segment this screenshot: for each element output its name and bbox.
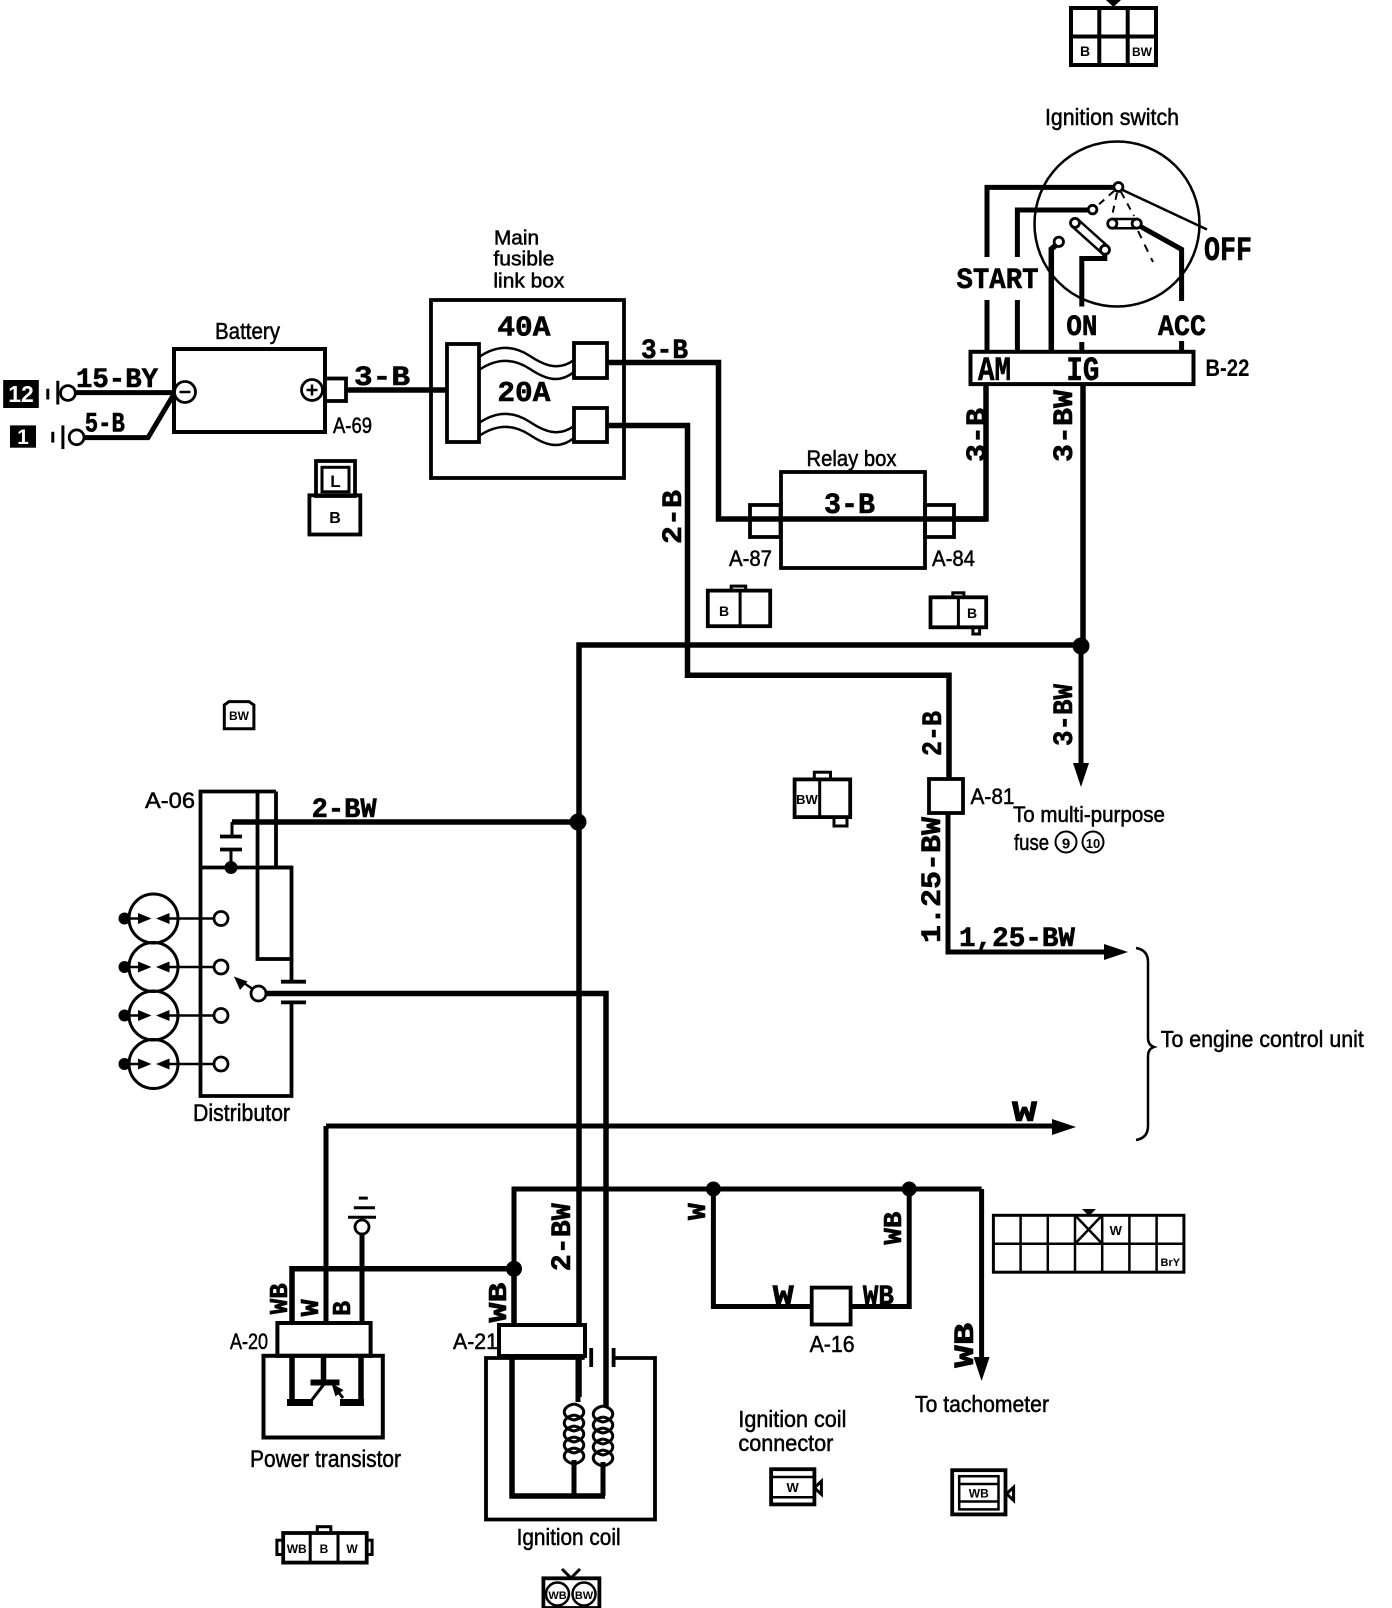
wire contact feed (thick) (1051, 246, 1055, 352)
svg-text:A-20: A-20 (230, 1329, 268, 1354)
svg-text:3-B: 3-B (641, 336, 688, 367)
svg-text:B: B (1080, 43, 1090, 59)
connector A-21 (499, 1325, 585, 1356)
fuse bus bar (447, 344, 479, 442)
wire WB horizontal (A-20 area) (292, 1269, 514, 1323)
svg-text:W: W (1110, 1223, 1123, 1238)
svg-text:START: START (957, 264, 1039, 298)
svg-text:9: 9 (1062, 836, 1070, 853)
terminal symbol 12 (46, 389, 49, 400)
svg-text:ACC: ACC (1158, 311, 1206, 345)
battery minus terminal (175, 382, 196, 403)
distributor box (201, 792, 292, 1097)
wire 5-B (84, 394, 174, 438)
wire WB riser to bus (514, 1189, 982, 1269)
switch contact circles (1088, 205, 1097, 214)
svg-text:To tachometer: To tachometer (915, 1391, 1049, 1417)
junction (condenser to case) (225, 861, 238, 874)
svg-text:3-B: 3-B (824, 489, 875, 523)
svg-text:A-87: A-87 (729, 546, 772, 571)
svg-text:WB: WB (879, 1211, 909, 1244)
connector grid (top, 2x3 cells B/BW) (1071, 0, 1156, 65)
fusible link 20A wavy (479, 414, 574, 432)
brace to engine control unit (1136, 948, 1154, 1140)
wire: long horizontal bus y=645 (579, 645, 1081, 1397)
svg-text:3-B: 3-B (963, 408, 994, 462)
svg-text:10: 10 (1086, 836, 1100, 851)
svg-text:B: B (719, 603, 729, 619)
junction W branch (706, 1182, 721, 1197)
coil return wire (512, 1356, 605, 1496)
svg-text:WB: WB (863, 1282, 894, 1313)
breaker condenser bars (281, 980, 306, 984)
switch line to OFF (1118, 188, 1207, 230)
svg-text:A-06: A-06 (145, 788, 195, 813)
svg-text:A-81: A-81 (971, 784, 1015, 809)
terminal 12 (black tag) (3, 380, 39, 408)
svg-text:BW: BW (575, 1590, 594, 1602)
svg-text:B: B (320, 1542, 329, 1556)
junction 2-BW (570, 814, 587, 831)
svg-text:Distributor: Distributor (193, 1100, 290, 1127)
main fusible link box (431, 300, 624, 478)
connector WB/BW (bottom center) (543, 1569, 599, 1608)
junction 3-BW (1073, 638, 1090, 655)
connector W (ignition coil connector) (771, 1469, 821, 1504)
svg-text:Power transistor: Power transistor (250, 1446, 401, 1473)
svg-text:15-BY: 15-BY (76, 365, 158, 396)
svg-text:L: L (330, 472, 340, 491)
svg-text:WB: WB (287, 1542, 307, 1556)
svg-text:B: B (329, 510, 341, 527)
svg-text:W: W (296, 1299, 326, 1316)
fusible link 40A wavy (479, 348, 574, 366)
svg-text:OFF: OFF (1204, 233, 1252, 271)
svg-text:B-22: B-22 (1205, 355, 1249, 382)
wire 3-B battery to fuse box (346, 387, 447, 393)
connector A-81 (929, 779, 963, 813)
svg-text:3-B: 3-B (354, 363, 410, 394)
svg-text:3-BW: 3-BW (1050, 390, 1081, 462)
distributor inner pickup rect (256, 792, 260, 868)
svg-text:A-16: A-16 (810, 1331, 855, 1357)
ground terminal (B pin) (360, 1234, 365, 1322)
svg-text:1: 1 (17, 426, 29, 449)
svg-text:Ignition coil: Ignition coil (738, 1406, 846, 1432)
connector A-20 (277, 1323, 370, 1356)
svg-text:W: W (346, 1542, 358, 1556)
connector grid (engine control, 2x7) (993, 1209, 1184, 1272)
wire 3-B fuse output to relay (607, 363, 750, 520)
connector A-16 (812, 1288, 851, 1325)
connector L/B (below battery) (309, 461, 360, 535)
svg-text:Relay box: Relay box (807, 446, 897, 471)
wire ON feed (1082, 252, 1105, 307)
svg-text:W: W (787, 1480, 800, 1495)
svg-text:BrY: BrY (1161, 1257, 1181, 1269)
wire W pin (distributor to A-20) (324, 1126, 329, 1322)
condenser plates (220, 835, 242, 839)
svg-text:W: W (1012, 1097, 1037, 1131)
wire W to engine control unit (326, 1124, 1054, 1129)
connector A-84 (925, 505, 954, 537)
circled 9 (1056, 832, 1077, 853)
svg-text:ON: ON (1066, 311, 1097, 345)
transistor Q1 (287, 1356, 364, 1406)
svg-text:WB: WB (484, 1282, 514, 1322)
svg-text:5-B: 5-B (85, 410, 125, 441)
svg-text:To engine control unit: To engine control unit (1161, 1026, 1365, 1052)
wire 2-B fuse output (607, 426, 949, 780)
wire ACC feed (1141, 227, 1182, 302)
wire W branch to A-16 (713, 1189, 811, 1307)
svg-text:BW: BW (229, 709, 250, 723)
svg-text:2-B: 2-B (659, 490, 690, 544)
spark plug 2 (119, 943, 229, 992)
wire WB to tachometer (979, 1189, 984, 1359)
wire WB branch to A-16 (851, 1189, 910, 1307)
svg-text:Ignition coil: Ignition coil (517, 1524, 621, 1550)
svg-text:A-21: A-21 (453, 1329, 498, 1354)
svg-text:Battery: Battery (215, 318, 280, 344)
svg-text:BW: BW (796, 792, 818, 807)
svg-text:1,25-BW: 1,25-BW (959, 924, 1075, 955)
svg-text:B: B (967, 605, 977, 621)
svg-text:connector: connector (738, 1430, 833, 1456)
ignition switch circle (1035, 142, 1200, 307)
wire 3-B through relay (750, 516, 986, 522)
svg-text:WB: WB (951, 1322, 982, 1367)
svg-text:BW: BW (1132, 45, 1153, 59)
connector A-69 (325, 379, 346, 402)
connector B-22 (ignition switch) (971, 352, 1194, 384)
terminal 1 (black tag) (10, 425, 36, 447)
switch dashed rays (1096, 191, 1114, 207)
svg-text:A-84: A-84 (932, 546, 975, 571)
svg-text:WB: WB (265, 1283, 295, 1314)
wire 2-BW distributor to bus (232, 819, 578, 825)
breaker moving contact (251, 986, 266, 1001)
svg-text:W: W (683, 1203, 713, 1220)
svg-text:A-69: A-69 (333, 413, 372, 438)
wire 3-BW (IG down to junction) (1080, 384, 1086, 646)
svg-text:link box: link box (493, 271, 564, 293)
svg-text:AM: AM (978, 353, 1011, 391)
connector B (left of relay, 2-cell) (708, 586, 770, 626)
connector WB/B/W (bottom left, 3-cell) (277, 1527, 372, 1563)
terminal symbol 1 (51, 432, 54, 443)
svg-text:fuse: fuse (1014, 830, 1049, 855)
power transistor box (264, 1356, 383, 1438)
wire 3-BW arrow to multi-purpose fuse (1079, 646, 1084, 765)
svg-text:WB: WB (969, 1487, 989, 1501)
connector A-87 (750, 505, 781, 537)
switch capsule (horizontal) (1112, 218, 1136, 221)
connector BW (middle, 2-cell) (795, 772, 851, 826)
svg-text:1.25-BW: 1.25-BW (918, 817, 949, 943)
svg-text:2-BW: 2-BW (548, 1203, 579, 1271)
battery plus terminal (302, 380, 323, 401)
svg-text:To multi-purpose: To multi-purpose (1013, 802, 1165, 827)
ignition coil case (486, 1348, 655, 1520)
svg-text:3-BW: 3-BW (1050, 684, 1081, 746)
connector B (right, 2-cell) (931, 593, 987, 634)
coil secondary winding (593, 1406, 613, 1496)
spark plug 1 (119, 894, 229, 943)
wire 15-BY (75, 390, 175, 395)
breaker points wire to coil (266, 994, 606, 1408)
svg-text:W: W (773, 1282, 794, 1313)
connector WB (tachometer) (952, 1470, 1013, 1514)
wire START feed (horizontal+vertical with text gap) (987, 187, 1114, 257)
junction WB branch (902, 1182, 917, 1197)
switch rotor capsule (diagonal) (1072, 226, 1102, 253)
svg-text:WB: WB (548, 1590, 566, 1602)
circled 10 (1083, 832, 1104, 853)
svg-text:Main: Main (494, 228, 539, 250)
svg-text:fusible: fusible (493, 249, 554, 271)
svg-text:2-BW: 2-BW (312, 795, 377, 826)
spark plug 4 (119, 1040, 229, 1089)
svg-text:20A: 20A (497, 377, 551, 410)
spark plug 3 (119, 991, 229, 1040)
junction WB (506, 1261, 522, 1277)
connector BW (small, upper left) (224, 702, 254, 729)
fuse 20A terminal (574, 408, 607, 442)
switch pivot (1114, 183, 1123, 192)
svg-text:B: B (328, 1301, 358, 1316)
fuse 40A terminal (574, 343, 607, 378)
svg-text:2-B: 2-B (919, 711, 950, 756)
wire second switch feed (1017, 210, 1088, 257)
wire 1.25-BW below A-81 (948, 813, 1106, 952)
coil primary winding (564, 1356, 584, 1496)
svg-text:40A: 40A (497, 312, 551, 345)
svg-text:12: 12 (8, 381, 34, 407)
battery box (174, 349, 325, 432)
wire WB down to A-21 (511, 1269, 517, 1325)
svg-text:Ignition switch: Ignition switch (1045, 104, 1179, 130)
relay box (781, 472, 925, 568)
wire 3-B (AM to relay box) (954, 384, 986, 519)
